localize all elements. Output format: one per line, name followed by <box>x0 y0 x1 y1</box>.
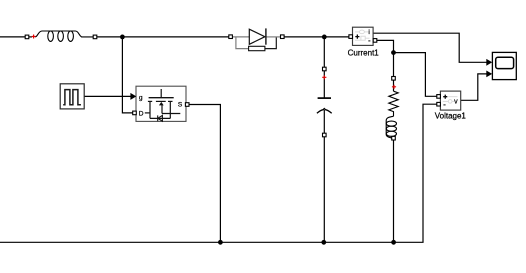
svg-text:D: D <box>139 110 144 117</box>
svg-text:Current1: Current1 <box>348 48 380 57</box>
svg-text:S: S <box>178 102 183 109</box>
svg-text:v: v <box>454 99 458 106</box>
svg-text:g: g <box>139 94 143 101</box>
svg-text:Voltage1: Voltage1 <box>435 112 467 121</box>
